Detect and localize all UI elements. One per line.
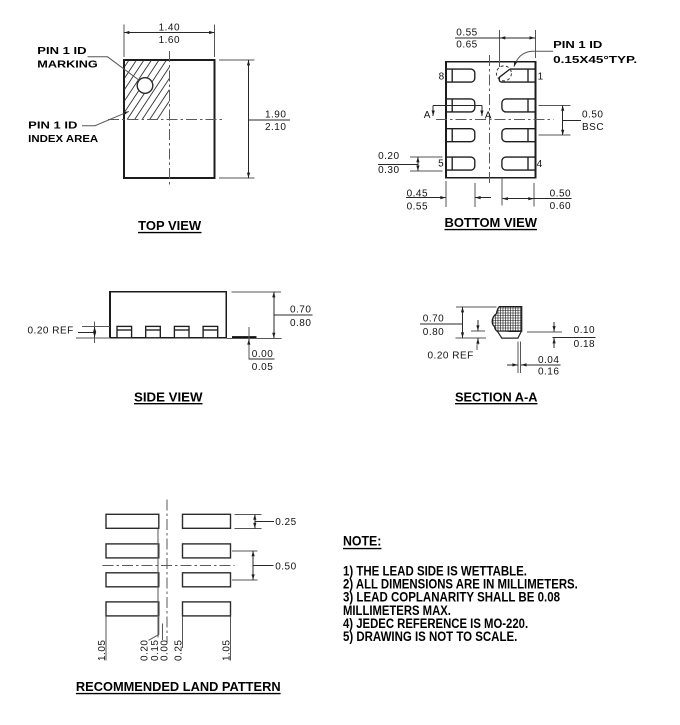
pad pin 5 xyxy=(446,157,475,170)
svg-text:2.10: 2.10 xyxy=(265,122,286,133)
svg-text:PIN 1 ID: PIN 1 ID xyxy=(28,121,77,132)
svg-text:1.90: 1.90 xyxy=(265,110,286,121)
bottom view package body outline xyxy=(446,62,535,178)
dimension 0.50 pitch xyxy=(232,551,297,580)
dimension 0.10/0.18 xyxy=(527,322,596,350)
dimension 1.90/2.10 height xyxy=(219,60,290,178)
svg-text:0.60: 0.60 xyxy=(550,201,571,212)
side view body outline xyxy=(110,292,226,338)
dimension 1.40/1.60 width xyxy=(124,22,215,57)
pin number 4 xyxy=(537,159,543,170)
svg-text:0.00: 0.00 xyxy=(160,640,171,661)
svg-text:TOP VIEW: TOP VIEW xyxy=(138,219,201,233)
dimension 0.00/0.05 standoff xyxy=(249,327,275,373)
dimension 0.25 pad height xyxy=(234,514,296,528)
svg-text:0.20: 0.20 xyxy=(140,640,151,661)
leader to pin 1 marking circle xyxy=(88,57,140,81)
title RECOMMENDED LAND PATTERN xyxy=(76,679,281,694)
land pads left column xyxy=(106,514,159,616)
land pads right column xyxy=(183,514,231,616)
pin number 8 xyxy=(439,71,445,82)
dimension 0.50 BSC pitch xyxy=(539,105,605,135)
svg-text:MARKING: MARKING xyxy=(37,59,98,70)
pad pin 6 xyxy=(446,129,475,142)
lead bottom thick line xyxy=(232,336,257,338)
svg-text:A: A xyxy=(485,110,492,121)
svg-text:0.45: 0.45 xyxy=(407,189,428,200)
svg-text:4: 4 xyxy=(537,159,543,170)
top extension line xyxy=(456,306,497,308)
dimension 0.70/0.80 section height xyxy=(420,307,463,338)
pad pin 1 with chamfer xyxy=(499,69,535,82)
note line 1 xyxy=(343,564,527,579)
label PIN 1 ID 0.15X45 TYP xyxy=(553,40,637,66)
land pattern horizontal centerline xyxy=(102,564,234,566)
rotated label 0.20 xyxy=(140,640,151,661)
svg-text:NOTE:: NOTE: xyxy=(343,534,381,549)
dimension 0.50/0.60 bottom right xyxy=(502,178,571,212)
title SECTION A-A xyxy=(455,390,538,404)
top view vertical centerline xyxy=(168,51,170,188)
section lead xyxy=(498,332,521,339)
svg-text:5: 5 xyxy=(438,159,444,170)
top view horizontal centerline xyxy=(108,119,223,121)
svg-text:0.18: 0.18 xyxy=(574,339,595,350)
note line 2 xyxy=(343,577,578,592)
land pattern vertical centerline xyxy=(166,499,168,642)
top view package body outline xyxy=(124,60,215,178)
svg-text:0.70: 0.70 xyxy=(423,314,444,325)
svg-text:0.10: 0.10 xyxy=(574,325,595,336)
pin number 5 xyxy=(438,159,444,170)
label PIN 1 ID INDEX AREA xyxy=(28,121,98,146)
rotated label 1.05 right xyxy=(222,640,233,661)
svg-text:0.05: 0.05 xyxy=(252,362,273,373)
pad pin 7 xyxy=(446,99,475,112)
note line 6 xyxy=(343,629,517,644)
pin 1 ID index area hatch xyxy=(88,57,199,122)
svg-text:1: 1 xyxy=(538,71,544,82)
svg-text:0.25: 0.25 xyxy=(275,517,296,528)
svg-text:0.70: 0.70 xyxy=(290,305,311,316)
rotated label 0.15 xyxy=(150,640,161,661)
pad pin 2 xyxy=(502,99,536,112)
svg-text:0.65: 0.65 xyxy=(456,40,477,51)
svg-text:5) DRAWING IS NOT TO SCALE.: 5) DRAWING IS NOT TO SCALE. xyxy=(343,629,517,644)
side view leads xyxy=(117,326,218,337)
seating plane extension left xyxy=(76,337,110,339)
svg-text:1.05: 1.05 xyxy=(97,640,108,661)
title TOP VIEW xyxy=(138,219,202,233)
svg-text:RECOMMENDED LAND PATTERN: RECOMMENDED LAND PATTERN xyxy=(76,679,281,694)
svg-text:1.05: 1.05 xyxy=(222,640,233,661)
svg-text:0.50: 0.50 xyxy=(582,110,603,121)
rotated label 0.25 xyxy=(174,640,185,661)
pad pin 4 xyxy=(502,157,536,170)
title BOTTOM VIEW xyxy=(445,216,538,230)
section cut line A-A xyxy=(424,106,492,122)
svg-text:BOTTOM VIEW: BOTTOM VIEW xyxy=(445,216,538,230)
pin number 1 xyxy=(538,71,544,82)
svg-text:0.20: 0.20 xyxy=(378,151,399,162)
note line 3 xyxy=(343,590,560,605)
svg-text:0.16: 0.16 xyxy=(538,366,559,377)
leader to pin 1 chamfer xyxy=(514,51,553,67)
rotated label 0.00 xyxy=(160,640,171,661)
svg-text:PIN 1 ID: PIN 1 ID xyxy=(37,46,86,57)
dimension 0.20/0.30 pad width xyxy=(378,151,443,176)
svg-text:0.55: 0.55 xyxy=(407,201,428,212)
svg-text:0.55: 0.55 xyxy=(456,27,477,38)
section body with crosshatch xyxy=(492,307,522,332)
pad pin 3 xyxy=(502,129,536,142)
rotated label 1.05 left xyxy=(97,640,108,661)
svg-text:1.40: 1.40 xyxy=(159,22,180,33)
note line 5 xyxy=(343,616,528,631)
svg-text:BSC: BSC xyxy=(582,122,604,133)
svg-text:1.60: 1.60 xyxy=(159,35,180,46)
extension lines down xyxy=(106,529,231,661)
pin 1 ID marking circle xyxy=(137,78,153,94)
dimension 0.70/0.80 package height xyxy=(232,292,313,338)
svg-text:0.25: 0.25 xyxy=(174,640,185,661)
bottom extension line xyxy=(456,337,487,339)
dimension 0.20 REF section xyxy=(428,320,478,362)
bottom view vertical centerline xyxy=(488,55,490,185)
svg-text:0.20 REF: 0.20 REF xyxy=(428,351,474,362)
svg-text:0.80: 0.80 xyxy=(423,327,444,338)
label PIN 1 ID MARKING xyxy=(37,46,98,71)
svg-text:SIDE VIEW: SIDE VIEW xyxy=(134,390,203,404)
pad pin 8 xyxy=(446,69,475,82)
leader arrow to hatch index area xyxy=(82,111,129,125)
svg-text:0.04: 0.04 xyxy=(538,355,559,366)
lead edge extension lines down xyxy=(518,341,521,373)
bottom view horizontal centerline xyxy=(436,118,554,120)
pin 1 ID dashed circle xyxy=(496,66,511,81)
svg-text:0.30: 0.30 xyxy=(378,165,399,176)
svg-text:PIN 1 ID: PIN 1 ID xyxy=(553,40,602,51)
dimension 0.04/0.16 xyxy=(507,355,561,377)
svg-text:0.50: 0.50 xyxy=(275,562,296,573)
svg-text:0.80: 0.80 xyxy=(290,318,311,329)
lead top extension line xyxy=(471,330,485,332)
svg-text:0.20 REF: 0.20 REF xyxy=(28,326,74,337)
svg-text:SECTION A-A: SECTION A-A xyxy=(455,390,538,404)
svg-text:0.15X45°TYP.: 0.15X45°TYP. xyxy=(553,55,637,66)
seating plane thin line right xyxy=(227,337,281,339)
title SIDE VIEW xyxy=(134,390,203,404)
svg-text:INDEX AREA: INDEX AREA xyxy=(28,134,98,145)
dimension 0.45/0.55 bottom left xyxy=(406,181,491,212)
dimension 0.20 REF lead height xyxy=(28,322,95,344)
heading NOTE: xyxy=(343,534,381,549)
svg-text:8: 8 xyxy=(439,71,445,82)
svg-text:0.50: 0.50 xyxy=(550,189,571,200)
svg-text:A: A xyxy=(424,110,431,121)
lead top reference line xyxy=(82,325,110,327)
dimension 0.55/0.65 xyxy=(455,27,535,67)
note line 4 xyxy=(343,603,451,618)
